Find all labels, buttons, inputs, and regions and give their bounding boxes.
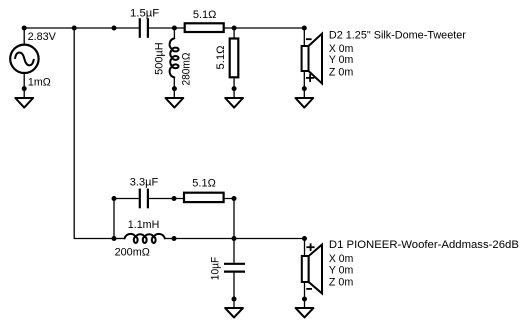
wire mid branch left vertical bbox=[113, 199, 115, 239]
node: R3 right pin bbox=[232, 196, 237, 201]
wire mid branch right vertical bbox=[233, 199, 235, 239]
node: R2 bottom bbox=[232, 86, 237, 91]
AC voltage source V1 bbox=[10, 45, 38, 73]
ground (C3) bbox=[225, 308, 243, 317]
tweeter plus sign bbox=[306, 77, 314, 79]
svg-text:3.3µF: 3.3µF bbox=[130, 176, 159, 188]
speaker D1 woofer symbol bbox=[302, 256, 309, 282]
wire 5.1R vertical resistor leads bbox=[233, 28, 235, 38]
node: source top bbox=[22, 26, 27, 31]
node: L2 left pin bbox=[112, 236, 117, 241]
speaker D2 tweeter symbol bbox=[302, 46, 309, 71]
ground (L1) bbox=[166, 98, 184, 108]
node: C2/R3 junction bbox=[172, 196, 177, 201]
tweeter minus sign bbox=[306, 38, 312, 40]
svg-text:2.83V: 2.83V bbox=[28, 31, 57, 43]
wire top rail right of C1 bbox=[149, 27, 305, 29]
node: feed junction bbox=[72, 26, 77, 31]
node: woofer - terminal bbox=[302, 297, 307, 302]
svg-text:1mΩ: 1mΩ bbox=[28, 76, 51, 88]
svg-text:Y 0m: Y 0m bbox=[329, 265, 353, 277]
wire 10uF column bbox=[233, 239, 235, 263]
wire mid branch horizontal bbox=[114, 198, 139, 200]
wire 500uH inductor leads bbox=[173, 28, 175, 39]
node: L2 right pin bbox=[172, 236, 177, 241]
svg-text:D1 PIONEER-Woofer-Addmass-26dB: D1 PIONEER-Woofer-Addmass-26dB bbox=[329, 239, 519, 251]
svg-text:5.1Ω: 5.1Ω bbox=[215, 46, 227, 70]
svg-text:Z 0m: Z 0m bbox=[329, 276, 353, 288]
svg-text:Z 0m: Z 0m bbox=[329, 66, 353, 78]
svg-text:1.1mH: 1.1mH bbox=[128, 219, 160, 231]
ground (source) bbox=[15, 98, 33, 108]
svg-text:280mΩ: 280mΩ bbox=[181, 53, 193, 86]
svg-text:Y 0m: Y 0m bbox=[329, 54, 353, 66]
wire source top lead bbox=[23, 28, 25, 45]
resistor R2 5.1Ω vertical bbox=[230, 39, 239, 78]
node: C1/R1/L1 junction bbox=[172, 26, 177, 31]
wire woofer leads bbox=[304, 239, 306, 257]
svg-text:10µF: 10µF bbox=[210, 257, 222, 281]
node: C3 bottom bbox=[232, 297, 237, 302]
capacitor C1 1.5µF bbox=[139, 18, 141, 38]
svg-text:X 0m: X 0m bbox=[329, 253, 353, 265]
node: tweeter + terminal bbox=[302, 26, 307, 31]
node: C1 left pin bbox=[112, 26, 117, 31]
wire left vertical feed to woofer network bbox=[74, 28, 114, 239]
wire bottom rail inductor to woofer bbox=[114, 238, 125, 240]
wire tweeter leads bbox=[303, 28, 305, 46]
capacitor C2 3.3µF bbox=[139, 189, 141, 209]
inductor L2 1.1mH bbox=[125, 234, 165, 243]
woofer plus sign bbox=[306, 246, 314, 248]
ground (woofer) bbox=[296, 308, 314, 317]
node: R3 bottom / C3 top bbox=[232, 236, 237, 241]
inductor L1 500µH bbox=[170, 38, 179, 77]
node: source bottom bbox=[22, 86, 27, 91]
ground (tweeter) bbox=[295, 98, 313, 108]
wire top rail left of C1 bbox=[24, 27, 139, 29]
node: C2 left pin bbox=[112, 196, 117, 201]
svg-text:D2 1.25" Silk-Dome-Tweeter: D2 1.25" Silk-Dome-Tweeter bbox=[329, 30, 466, 42]
resistor R3 5.1Ω bbox=[184, 193, 224, 202]
svg-text:500µH: 500µH bbox=[153, 42, 165, 75]
node: tweeter - terminal bbox=[302, 86, 307, 91]
svg-text:5.1Ω: 5.1Ω bbox=[192, 178, 216, 190]
resistor R1 5.1Ω bbox=[185, 23, 224, 32]
svg-text:1.5µF: 1.5µF bbox=[130, 7, 159, 19]
node: L1 bottom bbox=[172, 86, 177, 91]
ground (R2) bbox=[225, 98, 243, 108]
node: R1/R2 junction bbox=[232, 26, 237, 31]
capacitor C3 10µF bbox=[224, 263, 245, 265]
node: woofer + terminal bbox=[302, 236, 307, 241]
svg-text:200mΩ: 200mΩ bbox=[115, 246, 150, 258]
wire source bottom lead bbox=[23, 74, 25, 99]
svg-text:5.1Ω: 5.1Ω bbox=[193, 9, 217, 21]
woofer minus sign bbox=[306, 288, 312, 290]
wire bottom rail right of inductor bbox=[165, 238, 305, 240]
